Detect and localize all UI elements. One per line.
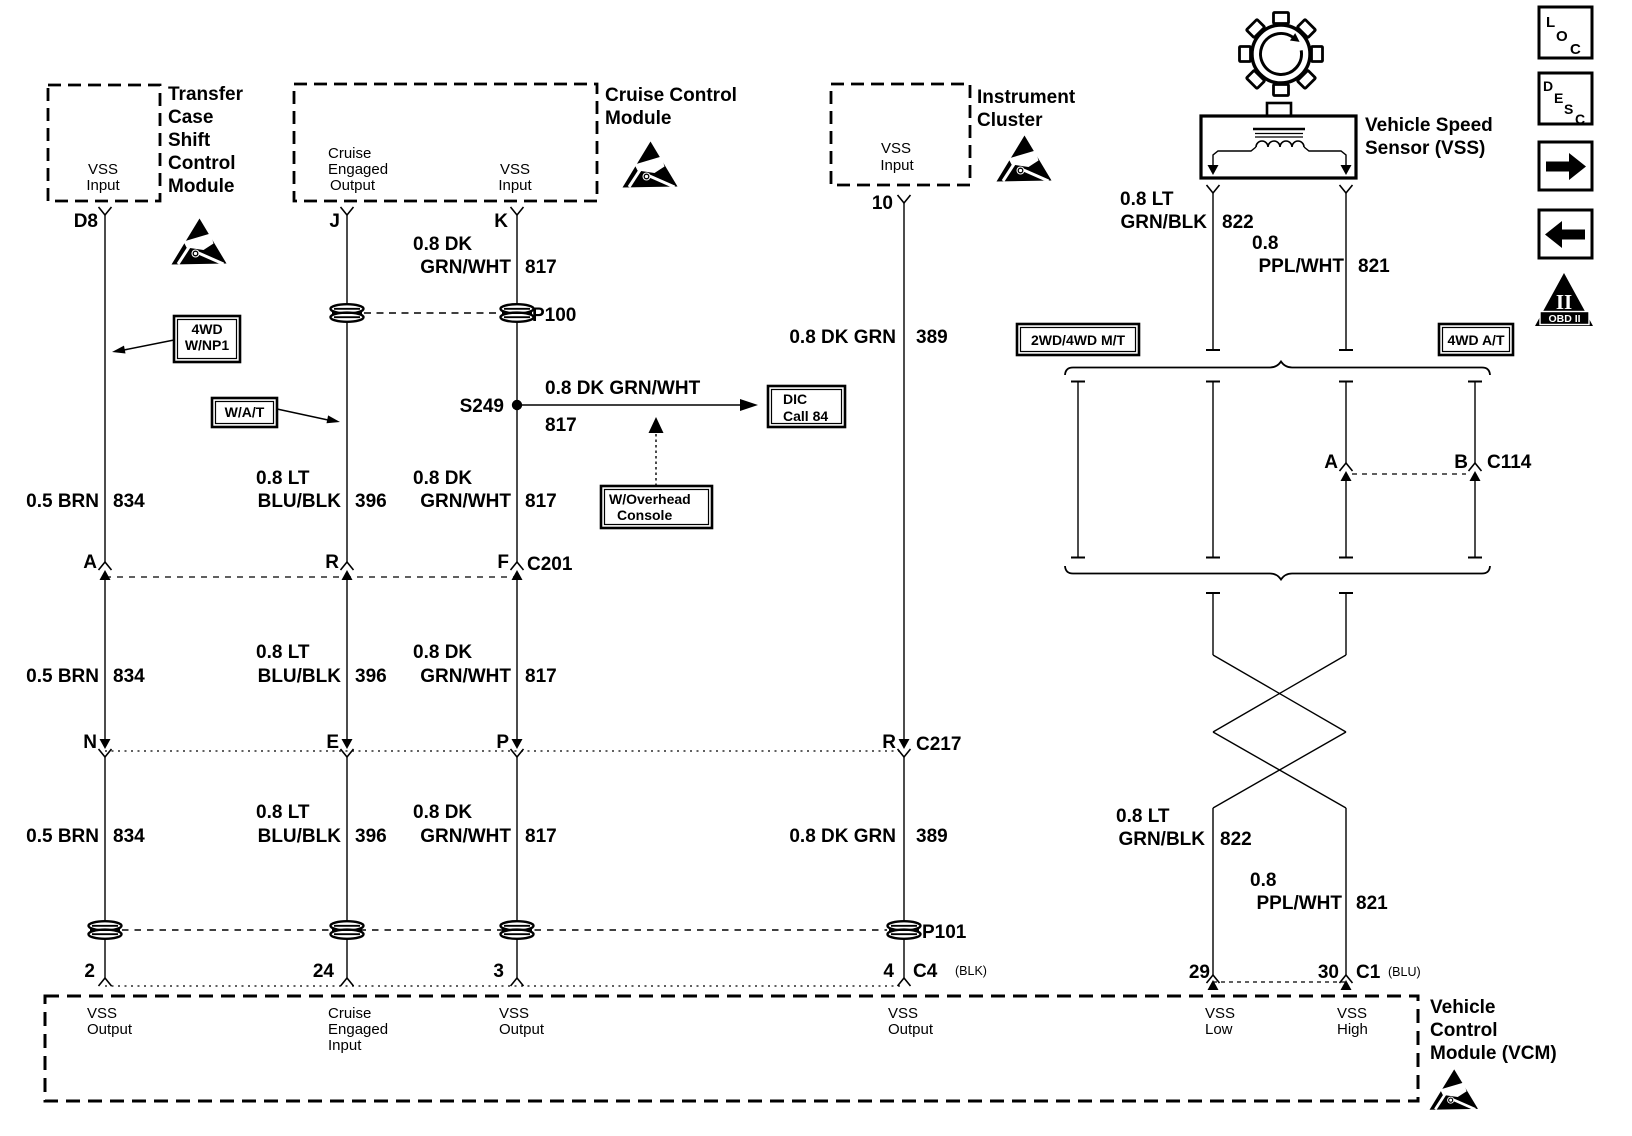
twisted pair crossing wires	[1213, 655, 1346, 808]
callout box 4WD W/NP1	[174, 316, 240, 362]
svg-text:Output: Output	[888, 1021, 934, 1038]
pin 10 terminal fork	[898, 195, 911, 203]
svg-text:O: O	[1556, 28, 1568, 45]
label 0.8 DK GRN/WHT 817 (branch)	[545, 378, 701, 436]
option wire 3 (with C114 pin A)	[1339, 382, 1353, 558]
svg-text:S249: S249	[460, 396, 504, 417]
connector P100 dashed link	[364, 312, 500, 314]
svg-text:VSS: VSS	[888, 1005, 918, 1022]
svg-text:Console: Console	[617, 507, 672, 523]
component Vehicle Speed Sensor box	[1201, 116, 1356, 178]
svg-text:Input: Input	[498, 177, 532, 194]
svg-text:396: 396	[355, 826, 387, 847]
svg-text:0.8 LT: 0.8 LT	[1116, 806, 1170, 827]
option wire 2	[1206, 382, 1220, 558]
svg-text:BLU/BLK: BLU/BLK	[258, 666, 342, 687]
connector C114 dashed line	[1352, 473, 1466, 475]
svg-text:4: 4	[883, 961, 894, 982]
wire 817 from K (segment 1)	[516, 215, 518, 562]
svg-text:N: N	[83, 732, 97, 753]
svg-text:Cluster: Cluster	[977, 110, 1043, 131]
svg-text:817: 817	[525, 666, 557, 687]
connector P100 grommet on wire 396	[331, 304, 364, 322]
svg-text:C: C	[1570, 41, 1581, 58]
svg-text:A: A	[1324, 452, 1338, 473]
wire 389 segment 2	[903, 757, 905, 978]
svg-text:P: P	[496, 732, 509, 753]
svg-text:0.8 DK: 0.8 DK	[413, 642, 472, 663]
callout box 2WD/4WD M/T	[1017, 324, 1139, 355]
VCM C4 connector dotted line	[105, 985, 904, 987]
svg-text:K: K	[494, 211, 508, 232]
svg-text:P101: P101	[922, 922, 967, 943]
arrow from W/Overhead Console up to 817 branch	[649, 417, 664, 486]
ESD symbol (VCM)	[1430, 1069, 1478, 1109]
svg-text:W/Overhead: W/Overhead	[609, 491, 691, 507]
pin 4 terminal fork	[898, 978, 911, 986]
wire 817 segment 3	[516, 757, 518, 978]
svg-text:Output: Output	[330, 177, 376, 194]
ESD symbol (Instrument Cluster)	[997, 136, 1052, 182]
svg-text:(BLK): (BLK)	[955, 964, 987, 978]
VCM pin label VSS Output (pin 2)	[87, 1005, 133, 1038]
pin J terminal fork	[341, 207, 354, 215]
VCM pin label VSS Output (pin 4)	[888, 1005, 934, 1038]
svg-text:0.8 LT: 0.8 LT	[256, 802, 310, 823]
callout box DIC Call 84	[768, 386, 845, 427]
label 0.5 BRN 834 (row 3)	[26, 826, 145, 847]
svg-text:Shift: Shift	[168, 130, 211, 151]
svg-text:VSS: VSS	[87, 1005, 117, 1022]
svg-text:E: E	[326, 732, 339, 753]
VSS sensor neck	[1267, 103, 1291, 117]
svg-text:VSS: VSS	[88, 161, 118, 178]
svg-text:Vehicle Speed: Vehicle Speed	[1365, 115, 1493, 136]
arrow from W/A/T to wire 396	[277, 409, 340, 423]
wire 821 end bar	[1339, 349, 1353, 351]
wire 822 end bar	[1206, 349, 1220, 351]
svg-text:0.8: 0.8	[1250, 870, 1276, 891]
svg-text:Output: Output	[499, 1021, 545, 1038]
module Transfer Case Shift Control Module (dashed box)	[48, 85, 160, 201]
VSS pin terminal fork left	[1207, 185, 1220, 193]
icon right-arrow button	[1539, 142, 1592, 190]
pin 30 terminal fork	[1340, 975, 1353, 990]
svg-text:C4: C4	[913, 961, 938, 982]
svg-text:0.5 BRN: 0.5 BRN	[26, 666, 99, 687]
connector C217 terminals wire 396	[341, 739, 354, 757]
wire 396 segment 2	[346, 580, 348, 740]
label Vehicle Control Module (VCM)	[1430, 997, 1557, 1064]
callout box W/A/T	[212, 398, 277, 427]
svg-text:GRN/BLK: GRN/BLK	[1118, 829, 1205, 850]
connector C217 terminals wire 389	[898, 739, 911, 757]
svg-text:0.8 LT: 0.8 LT	[1120, 189, 1174, 210]
svg-text:0.8 DK GRN/WHT: 0.8 DK GRN/WHT	[545, 378, 701, 399]
VCM pin label VSS High (pin 30)	[1337, 1005, 1368, 1038]
svg-text:29: 29	[1189, 962, 1210, 983]
svg-text:A: A	[83, 552, 97, 573]
svg-text:4WD: 4WD	[191, 321, 222, 337]
svg-text:Input: Input	[86, 177, 120, 194]
module Instrument Cluster (dashed box)	[831, 84, 970, 185]
label 0.8 DK GRN/WHT 817 (row 1)	[413, 468, 557, 512]
VSS pickup coil	[1256, 141, 1304, 147]
wire 817 segment 2	[516, 580, 518, 740]
svg-text:817: 817	[525, 826, 557, 847]
svg-text:High: High	[1337, 1021, 1368, 1038]
svg-text:0.8 DK GRN: 0.8 DK GRN	[789, 826, 896, 847]
connector P101 dashed link	[122, 929, 887, 931]
svg-text:DIC: DIC	[783, 391, 807, 407]
svg-text:Input: Input	[328, 1037, 362, 1054]
svg-text:D8: D8	[74, 211, 98, 232]
svg-text:Cruise: Cruise	[328, 1005, 371, 1022]
label 0.8 LT GRN/BLK 822 (top)	[1120, 189, 1254, 233]
label 0.8 DK GRN/WHT 817 (row 3)	[413, 802, 557, 847]
svg-text:VSS: VSS	[500, 161, 530, 178]
svg-text:822: 822	[1220, 829, 1252, 850]
twisted pair stub right	[1339, 593, 1353, 655]
connector P101 grommet on wire 396	[331, 921, 364, 939]
svg-text:OBD II: OBD II	[1548, 313, 1580, 325]
wire 821 to pin 30	[1345, 808, 1347, 975]
VSS reluctor gear	[1240, 13, 1323, 96]
svg-text:C217: C217	[916, 734, 961, 755]
label 0.8 LT BLU/BLK 396 (row 3)	[256, 802, 387, 847]
svg-text:PPL/WHT: PPL/WHT	[1259, 256, 1345, 277]
label 0.8 DK GRN/WHT 817 (row 2)	[413, 642, 557, 687]
svg-text:Transfer: Transfer	[168, 84, 244, 105]
label 0.8 DK GRN/WHT 817 (top, at K)	[413, 234, 557, 278]
svg-text:4WD A/T: 4WD A/T	[1447, 332, 1504, 348]
svg-text:P100: P100	[532, 305, 576, 326]
svg-text:Control: Control	[1430, 1020, 1498, 1041]
svg-text:F: F	[497, 552, 509, 573]
svg-text:D: D	[1543, 78, 1553, 94]
svg-text:30: 30	[1318, 962, 1339, 983]
svg-text:0.8 DK: 0.8 DK	[413, 802, 472, 823]
VSS internal lead left with arrow	[1208, 147, 1257, 175]
svg-text:VSS: VSS	[881, 140, 911, 157]
twisted pair stub left	[1206, 593, 1220, 655]
svg-text:389: 389	[916, 327, 948, 348]
svg-text:2WD/4WD M/T: 2WD/4WD M/T	[1031, 332, 1126, 348]
svg-text:J: J	[329, 211, 340, 232]
svg-text:2: 2	[84, 961, 95, 982]
callout box W/Overhead Console	[601, 486, 712, 528]
label Cruise Control Module	[605, 85, 737, 129]
label Instrument Cluster	[977, 87, 1076, 131]
svg-text:0.8 DK GRN: 0.8 DK GRN	[789, 327, 896, 348]
connector P101 grommet on wire 389	[888, 921, 921, 939]
svg-text:Instrument: Instrument	[977, 87, 1076, 108]
svg-text:0.8 LT: 0.8 LT	[256, 642, 310, 663]
svg-text:II: II	[1556, 290, 1572, 314]
svg-text:Module (VCM): Module (VCM)	[1430, 1043, 1557, 1064]
svg-text:C1: C1	[1356, 962, 1381, 983]
connector C217 dotted line	[105, 750, 904, 752]
ESD symbol (Transfer Case module)	[172, 219, 227, 265]
svg-text:(BLU): (BLU)	[1388, 965, 1421, 979]
svg-text:817: 817	[545, 415, 577, 436]
svg-text:GRN/WHT: GRN/WHT	[420, 826, 511, 847]
VCM pin label Cruise Engaged Input (pin 24)	[328, 1005, 388, 1054]
svg-text:Vehicle: Vehicle	[1430, 997, 1496, 1018]
svg-text:Call 84: Call 84	[783, 408, 828, 424]
label 0.5 BRN 834 (row 2)	[26, 666, 145, 687]
label 0.8 DK GRN 389 (row 1)	[789, 327, 947, 348]
svg-text:0.8 LT: 0.8 LT	[256, 468, 310, 489]
VSS internal lead right with arrow	[1304, 147, 1352, 175]
wire 821 from VSS	[1345, 193, 1347, 350]
icon DESC button	[1539, 73, 1592, 127]
svg-text:389: 389	[916, 826, 948, 847]
svg-text:GRN/WHT: GRN/WHT	[420, 257, 511, 278]
svg-text:B: B	[1454, 452, 1468, 473]
connector C201 terminals wire 817	[511, 562, 524, 580]
module Vehicle Control Module VCM (dashed box)	[45, 996, 1418, 1101]
splice S249	[512, 400, 522, 410]
svg-text:Output: Output	[87, 1021, 133, 1038]
wire 834 segment 3	[104, 757, 106, 978]
svg-text:821: 821	[1356, 893, 1388, 914]
VCM pin label VSS Low (pin 29)	[1205, 1005, 1235, 1038]
svg-text:C201: C201	[527, 554, 573, 575]
svg-text:834: 834	[113, 666, 145, 687]
svg-text:W/A/T: W/A/T	[225, 404, 265, 420]
svg-text:396: 396	[355, 666, 387, 687]
svg-text:Control: Control	[168, 153, 236, 174]
svg-text:Sensor (VSS): Sensor (VSS)	[1365, 138, 1485, 159]
svg-text:Engaged: Engaged	[328, 161, 388, 178]
connector C217 terminals wire 817	[511, 739, 524, 757]
wire 834 from D8 (segment 1)	[104, 215, 106, 562]
svg-text:BLU/BLK: BLU/BLK	[258, 826, 342, 847]
label Transfer Case Shift Control Module	[168, 84, 244, 197]
arrow from 4WD W/NP1 to wire 834	[112, 340, 174, 354]
svg-text:W/NP1: W/NP1	[185, 337, 230, 353]
label 0.8 LT BLU/BLK 396 (row 1)	[256, 468, 387, 512]
svg-text:VSS: VSS	[1337, 1005, 1367, 1022]
svg-text:0.8 DK: 0.8 DK	[413, 468, 472, 489]
wire 389 from pin 10 (segment 1)	[903, 203, 905, 740]
svg-text:E: E	[1554, 90, 1563, 106]
svg-text:817: 817	[525, 257, 557, 278]
svg-text:PPL/WHT: PPL/WHT	[1257, 893, 1343, 914]
connector C217 terminals wire 834	[99, 739, 112, 757]
svg-text:396: 396	[355, 491, 387, 512]
VSS core laminations	[1253, 129, 1305, 137]
ESD symbol (Cruise Control module)	[623, 142, 678, 188]
svg-text:GRN/BLK: GRN/BLK	[1120, 212, 1207, 233]
pin D8 terminal fork	[99, 207, 112, 215]
svg-text:Cruise: Cruise	[328, 145, 371, 162]
wire 834 segment 2	[104, 580, 106, 740]
svg-text:R: R	[882, 732, 896, 753]
pin K terminal fork	[511, 207, 524, 215]
label 0.8 LT GRN/BLK 822 (lower)	[1116, 806, 1252, 850]
svg-text:834: 834	[113, 826, 145, 847]
svg-text:VSS: VSS	[1205, 1005, 1235, 1022]
option wire 1 (2WD/4WD M/T left)	[1071, 382, 1085, 558]
wire 396 segment 3	[346, 757, 348, 978]
pin 2 terminal fork	[99, 978, 112, 986]
icon OBD II triangle	[1535, 273, 1593, 326]
svg-text:Low: Low	[1205, 1021, 1233, 1038]
module Cruise Control Module (dashed box)	[294, 84, 597, 201]
label 0.5 BRN 834 (row 1)	[26, 491, 145, 512]
svg-text:10: 10	[872, 193, 893, 214]
svg-text:S: S	[1564, 101, 1573, 117]
svg-text:834: 834	[113, 491, 145, 512]
label 0.8 PPL/WHT 821 (lower)	[1250, 870, 1388, 914]
label 0.8 PPL/WHT 821 (top)	[1252, 233, 1390, 277]
callout box 4WD A/T	[1439, 324, 1513, 355]
svg-text:L: L	[1546, 14, 1555, 31]
icon LOC button	[1539, 7, 1592, 58]
svg-text:3: 3	[493, 961, 504, 982]
svg-text:R: R	[325, 552, 339, 573]
connector P101 grommet on wire 834	[89, 921, 122, 939]
option wire 4 (with C114 pin B)	[1468, 382, 1482, 558]
icon left-arrow button	[1539, 210, 1592, 258]
pin 24 terminal fork	[341, 978, 354, 986]
connector C201 dashed line	[105, 576, 517, 578]
svg-text:0.5 BRN: 0.5 BRN	[26, 826, 99, 847]
pin 3 terminal fork	[511, 978, 524, 986]
label Vehicle Speed Sensor (VSS)	[1365, 115, 1493, 159]
svg-text:Module: Module	[168, 176, 235, 197]
svg-text:0.8 DK: 0.8 DK	[413, 234, 472, 255]
label 0.8 LT BLU/BLK 396 (row 2)	[256, 642, 387, 687]
svg-text:C114: C114	[1487, 452, 1532, 473]
wire 817 branch to DIC	[517, 399, 758, 411]
VCM pin label VSS Output (pin 3)	[499, 1005, 545, 1038]
svg-text:24: 24	[313, 961, 335, 982]
svg-text:BLU/BLK: BLU/BLK	[258, 491, 342, 512]
connector C201 terminals wire 834	[99, 562, 112, 580]
connector P101 grommet on wire 817	[501, 921, 534, 939]
svg-text:0.5 BRN: 0.5 BRN	[26, 491, 99, 512]
svg-text:VSS: VSS	[499, 1005, 529, 1022]
connector C201 terminals wire 396	[341, 562, 354, 580]
svg-text:Cruise Control: Cruise Control	[605, 85, 737, 106]
pin 29 terminal fork	[1207, 975, 1220, 990]
svg-text:C: C	[1575, 111, 1585, 127]
svg-text:Case: Case	[168, 107, 213, 128]
wire 396 from J (segment 1)	[346, 215, 348, 562]
svg-text:822: 822	[1222, 212, 1254, 233]
svg-text:GRN/WHT: GRN/WHT	[420, 666, 511, 687]
svg-text:Engaged: Engaged	[328, 1021, 388, 1038]
svg-text:817: 817	[525, 491, 557, 512]
svg-text:0.8: 0.8	[1252, 233, 1278, 254]
connector C1 dashed line	[1213, 981, 1346, 983]
svg-text:Input: Input	[880, 157, 914, 174]
svg-text:821: 821	[1358, 256, 1390, 277]
connector P100 grommet on wire 817	[501, 304, 534, 322]
brace lower (wire options)	[1065, 566, 1490, 580]
brace upper (wire options)	[1065, 362, 1490, 376]
VSS pin terminal fork right	[1340, 185, 1353, 193]
svg-text:GRN/WHT: GRN/WHT	[420, 491, 511, 512]
label 0.8 DK GRN 389 (row 3)	[789, 826, 947, 847]
wire 822 to pin 29	[1212, 808, 1214, 975]
wire 822 from VSS	[1212, 193, 1214, 350]
svg-text:Module: Module	[605, 108, 672, 129]
